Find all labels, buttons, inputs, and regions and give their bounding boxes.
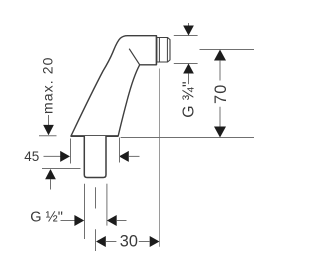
svg-text:45: 45	[24, 149, 39, 164]
svg-text:G ½": G ½"	[30, 209, 63, 225]
svg-text:max. 20: max. 20	[39, 57, 55, 115]
svg-text:70: 70	[212, 83, 230, 104]
svg-text:30: 30	[120, 233, 138, 251]
svg-text:G ¾": G ¾"	[180, 81, 197, 118]
